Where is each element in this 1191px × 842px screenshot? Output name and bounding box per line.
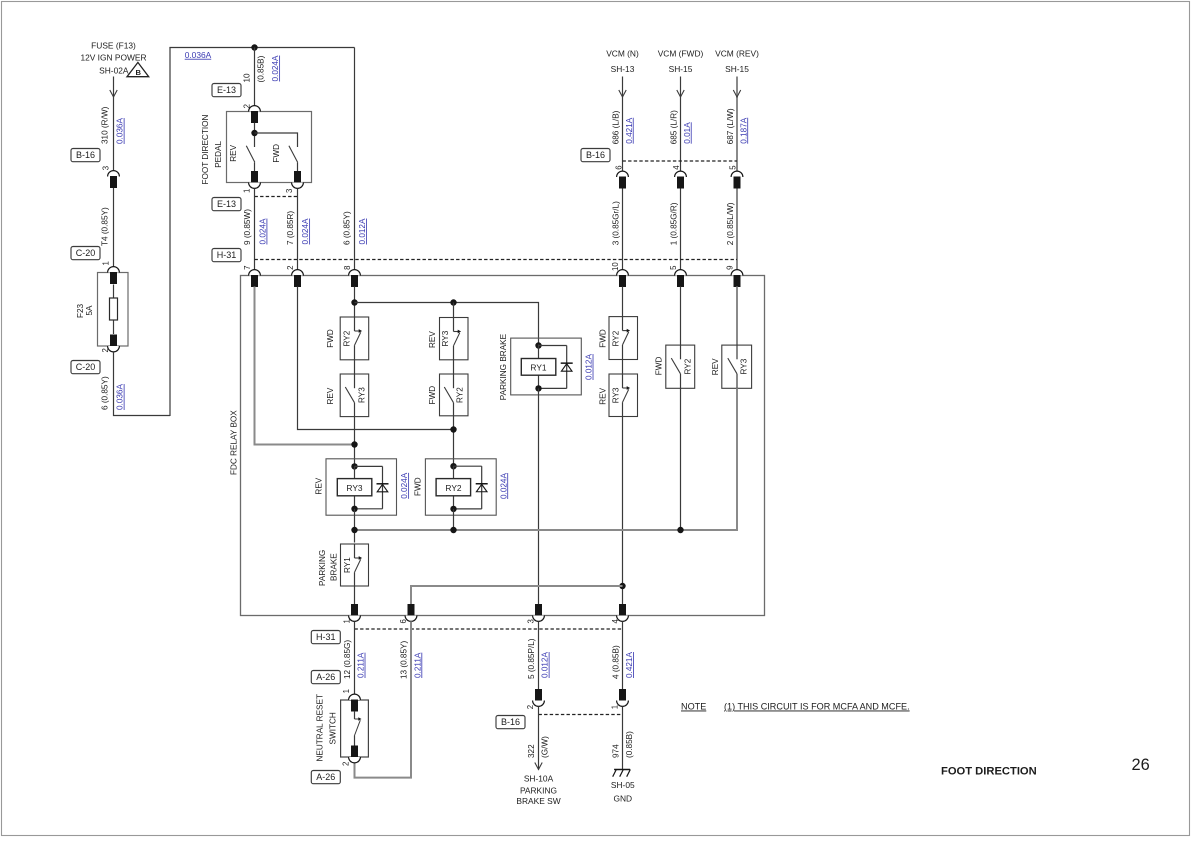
svg-text:FWD: FWD: [272, 144, 281, 163]
svg-text:2: 2: [526, 705, 535, 709]
node RY3 coil bottom: [351, 506, 357, 512]
connector label E-13 upper: [212, 84, 241, 97]
wire RY1 coil to connector 3: [538, 388, 540, 604]
relay coil RY1: [538, 345, 540, 389]
svg-text:SH-15: SH-15: [669, 64, 693, 74]
svg-text:0.012A: 0.012A: [585, 354, 594, 380]
FDC relay box: [241, 276, 765, 616]
switch FWD RY2 S1: [340, 317, 369, 360]
wire to FWD switch: [255, 133, 298, 147]
connector H-31 pin 10 symbol: [617, 270, 629, 276]
svg-text:RY3: RY3: [346, 483, 362, 493]
svg-text:FOOT DIRECTION: FOOT DIRECTION: [201, 115, 210, 185]
svg-text:3 (0.85Gr/L): 3 (0.85Gr/L): [612, 201, 621, 245]
connector E-13 pin 1 symbol: [251, 171, 258, 183]
connector E-13 pin 3 symbol: [294, 171, 301, 183]
svg-text:8: 8: [343, 266, 352, 270]
node RY1 coil bottom: [535, 385, 541, 391]
wire col2 down: [453, 303, 455, 318]
dashed connector line B-16 VCM: [623, 160, 738, 162]
svg-text:0.187A: 0.187A: [739, 117, 748, 143]
wire 1 (0.85G/R): [680, 189, 682, 270]
connector H-31 pin 3 symbol: [535, 604, 542, 616]
connector label A-26 upper: [311, 671, 340, 684]
svg-text:1: 1: [343, 619, 352, 623]
dashed connector line H-31 top: [255, 259, 738, 261]
connector label H-31 bottom: [311, 631, 340, 644]
svg-text:687 (L/W): 687 (L/W): [726, 108, 735, 144]
svg-text:B: B: [135, 68, 141, 77]
connector label C-20 lower: [71, 361, 100, 374]
wire 4 (0.85B): [622, 621, 624, 689]
svg-text:0.024A: 0.024A: [271, 55, 280, 81]
svg-text:0.024A: 0.024A: [259, 218, 268, 244]
svg-text:6 (0.85Y): 6 (0.85Y): [343, 211, 352, 245]
svg-text:10: 10: [243, 73, 252, 83]
switch REV RY3 S6: [609, 374, 638, 417]
wire 6 (0.85Y) from top bus: [354, 48, 356, 270]
svg-text:RY2: RY2: [445, 483, 461, 493]
svg-text:2: 2: [101, 348, 110, 352]
svg-text:6: 6: [399, 619, 408, 623]
node bus RY3: [351, 527, 357, 533]
svg-text:5 (0.85P/L): 5 (0.85P/L): [527, 638, 536, 679]
wire pin8 down: [354, 287, 356, 318]
svg-text:0.036A: 0.036A: [185, 50, 212, 60]
svg-text:SH-02A: SH-02A: [99, 66, 129, 76]
svg-text:1: 1: [342, 689, 351, 693]
svg-text:RY2: RY2: [683, 358, 692, 374]
wire 686 (L/B) from VCM (N): [622, 77, 624, 172]
svg-text:0.036A: 0.036A: [116, 384, 125, 410]
wire S3-S6: [622, 360, 624, 375]
svg-text:5A: 5A: [85, 305, 94, 316]
svg-text:SH-13: SH-13: [611, 64, 635, 74]
wire S7 to bus: [680, 388, 682, 530]
wire 6 (0.85Y) to top bus: [114, 352, 171, 416]
switch REV pedal: [246, 146, 255, 163]
wire 322 (G/W) to parking brake sw: [538, 706, 540, 769]
fuse bottom connector: [110, 335, 117, 347]
wire 5 (0.85P/L): [538, 621, 540, 689]
svg-text:RY2: RY2: [456, 387, 465, 403]
relay coil RY3: [354, 466, 356, 508]
connector E-13 pin 2 symbol: [249, 106, 261, 112]
wire S4 to node: [354, 417, 356, 467]
svg-text:5: 5: [669, 265, 678, 270]
svg-text:RY2: RY2: [612, 330, 621, 346]
connector A-26 pin 2 symbol: [351, 746, 358, 758]
connector label B-16 bottom: [496, 716, 525, 729]
switch FWD RY2 S5: [440, 374, 469, 416]
svg-text:RY3: RY3: [739, 358, 748, 374]
wire pin5 down: [680, 287, 682, 346]
switch REV RY3 S8: [722, 345, 752, 388]
dashed connector line H-31 bottom: [355, 628, 624, 630]
connector B-16 pin 2 symbol bottom: [535, 689, 542, 701]
triangle symbol B: [127, 62, 149, 76]
svg-text:9 (0.85W): 9 (0.85W): [243, 209, 252, 245]
svg-text:SH-10A: SH-10A: [524, 773, 554, 783]
svg-text:H-31: H-31: [316, 632, 336, 642]
svg-text:686 (L/B): 686 (L/B): [612, 110, 621, 144]
svg-text:RY1: RY1: [530, 362, 546, 372]
svg-text:5: 5: [729, 165, 738, 170]
svg-text:0.012A: 0.012A: [541, 652, 550, 678]
fuse F23 5A box: [98, 273, 129, 347]
svg-text:B-16: B-16: [501, 717, 520, 727]
connector H-31 pin 2 symbol: [292, 270, 304, 276]
wire S8 to bus gray: [736, 388, 738, 531]
svg-text:6: 6: [615, 165, 624, 169]
svg-text:0.024A: 0.024A: [499, 473, 508, 499]
wire S5 to coil RY2: [453, 416, 455, 466]
svg-text:12V IGN POWER: 12V IGN POWER: [80, 53, 146, 63]
svg-text:REV: REV: [314, 477, 323, 494]
wire 7 (0.85R): [297, 189, 299, 270]
svg-text:(0.85B): (0.85B): [257, 55, 266, 82]
svg-text:C-20: C-20: [76, 362, 96, 372]
node col2 top: [450, 299, 456, 305]
wire 3 (0.85Gr/L): [622, 189, 624, 270]
svg-text:B-16: B-16: [586, 150, 605, 160]
svg-text:FWD: FWD: [599, 329, 608, 348]
diode D-RY2: [454, 465, 482, 467]
svg-text:VCM (N): VCM (N): [606, 49, 639, 59]
wire T4 (0.85Y): [113, 188, 115, 267]
svg-text:RY3: RY3: [357, 387, 366, 403]
svg-text:REV: REV: [711, 358, 720, 375]
connector label H-31 top: [212, 249, 241, 262]
svg-text:RY3: RY3: [441, 330, 450, 346]
svg-text:26: 26: [1132, 756, 1150, 774]
connector label B-16 fuse: [71, 149, 100, 162]
svg-text:H-31: H-31: [217, 250, 237, 260]
dashed connector line E-13 lower: [255, 196, 298, 198]
connector H-31 pin 7 symbol: [249, 270, 261, 276]
wire 13 (0.85Y) gray: [355, 621, 412, 777]
svg-text:0.421A: 0.421A: [625, 652, 634, 678]
connector label C-20 upper: [71, 247, 100, 260]
node RY2 coil top: [450, 463, 456, 469]
svg-text:0.024A: 0.024A: [301, 218, 310, 244]
svg-text:1 (0.85G/R): 1 (0.85G/R): [670, 202, 679, 245]
wire bus to RY1 coil and col2: [355, 303, 539, 345]
svg-text:3: 3: [285, 189, 294, 193]
svg-text:0.024A: 0.024A: [400, 472, 409, 498]
svg-text:3: 3: [102, 166, 111, 170]
relay coil RY2 box: [425, 459, 496, 515]
wire S2-S5: [453, 360, 455, 374]
wire coil common bus gray: [355, 529, 738, 531]
wire connector6 bus gray: [411, 586, 623, 604]
svg-text:0.036A: 0.036A: [116, 118, 125, 144]
svg-text:6 (0.85Y): 6 (0.85Y): [101, 376, 110, 410]
wire S1-S4: [354, 360, 356, 374]
node RY2 coil feed: [450, 426, 456, 432]
svg-text:SH-15: SH-15: [725, 64, 749, 74]
svg-text:FWD: FWD: [414, 477, 423, 496]
wire RY1 contact to connector 1: [354, 586, 356, 604]
svg-text:0.01A: 0.01A: [683, 122, 692, 144]
svg-text:FWD: FWD: [655, 356, 664, 375]
svg-text:FUSE (F13): FUSE (F13): [91, 41, 136, 51]
svg-text:SH-05: SH-05: [611, 780, 635, 790]
svg-text:FDC RELAY BOX: FDC RELAY BOX: [230, 410, 239, 475]
relay coil RY3 box: [326, 459, 397, 515]
wire 9 (0.85W): [254, 189, 256, 270]
fuse F23 element: [113, 285, 115, 335]
node RY3 coil feed: [351, 441, 357, 447]
svg-text:310 (R/W): 310 (R/W): [101, 106, 110, 144]
svg-text:GND: GND: [613, 794, 632, 804]
svg-text:B-16: B-16: [76, 150, 95, 160]
svg-text:NEUTRAL RESET: NEUTRAL RESET: [316, 694, 325, 761]
neutral reset switch box: [341, 700, 369, 757]
svg-text:RY1: RY1: [343, 557, 352, 573]
svg-text:PARKING: PARKING: [520, 785, 557, 795]
node bus S7: [677, 527, 683, 533]
svg-text:E-13: E-13: [217, 85, 236, 95]
svg-text:REV: REV: [229, 144, 238, 161]
svg-text:A-26: A-26: [316, 772, 335, 782]
wire 12 (0.85G): [354, 621, 356, 694]
node bus RY2: [450, 527, 456, 533]
svg-text:0.211A: 0.211A: [357, 652, 366, 678]
connector B-16 pin 3 symbol: [108, 171, 120, 177]
connector H-31 pin 5 symbol: [675, 270, 687, 276]
connector H-31 pin 8 symbol: [349, 270, 361, 276]
svg-text:C-20: C-20: [76, 248, 96, 258]
diode D-RY3: [355, 465, 383, 467]
connector B-16 symbol VCM (FWD): [675, 171, 687, 177]
connector H-31 pin 4 symbol: [619, 604, 626, 616]
svg-text:7 (0.85R): 7 (0.85R): [286, 211, 295, 245]
svg-text:(1) THIS CIRCUIT IS FOR MCFA A: (1) THIS CIRCUIT IS FOR MCFA AND MCFE.: [724, 702, 910, 712]
svg-text:RY3: RY3: [612, 387, 621, 403]
node RY1 coil top: [535, 342, 541, 348]
wire 687 (L/W) from VCM (REV): [736, 77, 738, 172]
svg-text:FWD: FWD: [428, 386, 437, 405]
svg-text:2: 2: [286, 266, 295, 270]
svg-text:VCM (REV): VCM (REV): [715, 49, 759, 59]
switch FWD RY2 S7: [666, 345, 695, 388]
svg-text:NOTE: NOTE: [681, 702, 706, 712]
connector H-31 pin 9 symbol: [731, 270, 743, 276]
svg-text:1: 1: [611, 705, 620, 709]
connector H-31 pin 6 symbol: [408, 604, 415, 616]
svg-text:12 (0.85G): 12 (0.85G): [343, 640, 352, 679]
wire pin9 down gray: [736, 287, 738, 346]
svg-text:PEDAL: PEDAL: [214, 141, 223, 168]
svg-text:E-13: E-13: [217, 199, 236, 209]
ground symbol SH-05: [614, 769, 630, 771]
connector A-26 pin 1 symbol: [349, 694, 361, 700]
connector B-16 pin 1 symbol bottom: [619, 689, 626, 701]
svg-text:7: 7: [243, 266, 252, 270]
svg-text:0.211A: 0.211A: [413, 652, 422, 678]
node RY3 coil top: [351, 463, 357, 469]
switch REV RY3 S2: [440, 318, 469, 360]
svg-text:REV: REV: [428, 331, 437, 348]
wire pin7 to coil RY3 feed gray: [255, 287, 355, 445]
connector B-16 symbol VCM (N): [617, 171, 629, 177]
diode D-RY1: [539, 345, 567, 347]
svg-text:9: 9: [725, 266, 734, 270]
svg-text:VCM (FWD): VCM (FWD): [658, 49, 704, 59]
switch FWD pedal: [289, 146, 298, 163]
svg-text:FOOT DIRECTION: FOOT DIRECTION: [941, 766, 1037, 778]
wire 2 (0.85L/W): [736, 189, 738, 270]
svg-text:1: 1: [242, 189, 251, 193]
svg-text:BRAKE SW: BRAKE SW: [516, 796, 560, 806]
switch neutral reset: [354, 711, 356, 719]
svg-text:0.421A: 0.421A: [625, 117, 634, 143]
node bus2 join: [619, 583, 625, 589]
svg-text:T4 (0.85Y): T4 (0.85Y): [101, 207, 110, 246]
svg-text:REV: REV: [326, 387, 335, 404]
svg-text:2 (0.85L/W): 2 (0.85L/W): [726, 202, 735, 245]
wire 310 (R/W) from fuse: [113, 77, 115, 171]
connector label A-26 lower: [311, 771, 340, 784]
wire pin10 down: [622, 287, 624, 317]
connector label B-16 VCM: [581, 149, 610, 162]
connector label E-13 lower: [212, 198, 241, 211]
svg-text:PARKING BRAKE: PARKING BRAKE: [499, 333, 508, 400]
svg-text:A-26: A-26: [316, 672, 335, 682]
connector H-31 pin 1 symbol: [351, 604, 358, 616]
svg-text:13 (0.85Y): 13 (0.85Y): [400, 640, 409, 679]
relay coil RY1 box parking brake: [511, 338, 582, 395]
svg-text:322: 322: [527, 744, 536, 758]
wire 10 (0.85B) to pedal: [254, 48, 256, 106]
connector B-16 symbol VCM (REV): [731, 171, 743, 177]
svg-text:10: 10: [611, 262, 620, 271]
wire top bus 12V: [169, 47, 354, 49]
switch REV RY3 S4: [340, 374, 369, 417]
wire RY3 coil to bus: [354, 509, 356, 543]
dashed connector line B-16 bottom: [539, 714, 624, 716]
node junction top bus to pedal: [251, 44, 257, 50]
node pedal branch junction: [251, 130, 257, 136]
svg-text:974: 974: [611, 744, 620, 758]
svg-text:REV: REV: [599, 387, 608, 404]
svg-text:FWD: FWD: [326, 329, 335, 348]
wire RY2 coil to bus: [453, 509, 455, 530]
switch FWD RY2 S3: [609, 317, 638, 360]
svg-text:PARKING: PARKING: [318, 550, 327, 586]
svg-text:2: 2: [342, 762, 351, 766]
svg-text:4: 4: [611, 619, 620, 624]
svg-text:(0.85B): (0.85B): [625, 731, 634, 758]
svg-text:4 (0.85B): 4 (0.85B): [611, 645, 620, 679]
wire S6 to connector 4: [622, 417, 624, 605]
svg-text:4: 4: [672, 165, 681, 170]
wire 974 (0.85B) to ground: [622, 706, 624, 769]
svg-text:SWITCH: SWITCH: [328, 712, 337, 744]
svg-text:685 (L/R): 685 (L/R): [670, 110, 679, 144]
svg-text:3: 3: [527, 619, 536, 623]
node pin8 branch: [351, 299, 357, 305]
svg-text:(G/W): (G/W): [541, 736, 550, 758]
svg-text:RY2: RY2: [343, 330, 352, 346]
svg-text:F23: F23: [76, 303, 85, 318]
node RY2 coil bottom: [450, 506, 456, 512]
wire pedal common: [254, 123, 256, 147]
wire pin2 to coil RY2 feed: [298, 287, 454, 430]
svg-text:BRAKE: BRAKE: [329, 553, 338, 581]
wire 685 (L/R) from VCM (FWD): [680, 77, 682, 172]
foot direction pedal box: [227, 112, 312, 183]
relay coil RY2: [453, 466, 455, 509]
svg-text:0.012A: 0.012A: [358, 218, 367, 244]
svg-text:1: 1: [102, 261, 111, 265]
switch RY1 parking brake contact: [341, 544, 369, 586]
